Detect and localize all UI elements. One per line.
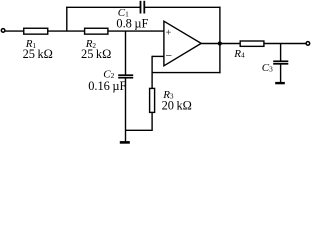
resistor R3 — [150, 88, 155, 112]
op-amp U1 — [164, 21, 201, 66]
output terminal — [306, 42, 310, 46]
ground stub — [125, 130, 127, 141]
ground — [120, 141, 130, 144]
wire C2 to bottom rail — [125, 78, 127, 130]
capacitor C3 — [273, 61, 288, 64]
output node junction dot — [218, 41, 222, 45]
capacitor C2 — [118, 75, 133, 78]
wire C3 branch down — [280, 44, 282, 62]
wire C3 to ground — [280, 64, 282, 82]
wire op-amp output — [201, 43, 240, 45]
ground — [275, 82, 285, 84]
svg-text:25 kΩ: 25 kΩ — [81, 47, 111, 61]
svg-text:20 kΩ: 20 kΩ — [162, 99, 192, 113]
wire output node vertical — [219, 7, 221, 74]
wire top rail right of C1 — [144, 6, 220, 8]
wire R4 to output terminal — [264, 43, 306, 45]
input terminal — [1, 29, 5, 33]
svg-text:0.16 µF: 0.16 µF — [88, 79, 126, 93]
svg-text:C3: C3 — [262, 62, 273, 74]
wire minus input down to R3 — [151, 56, 153, 89]
wire R2 to op-amp + input — [108, 30, 164, 32]
wire top rail left of C1 — [66, 6, 140, 8]
wire minus input — [152, 55, 164, 57]
node A vertical wire to top rail — [66, 7, 68, 32]
svg-text:0.8 µF: 0.8 µF — [116, 16, 148, 30]
minus input marking — [166, 55, 172, 57]
capacitor C1 — [141, 1, 145, 14]
wire C2 branch down from main line — [125, 31, 127, 75]
wire input to R1 — [5, 30, 24, 32]
resistor R4 — [240, 41, 264, 46]
bottom rail wire — [126, 129, 153, 131]
resistor R1 — [24, 28, 48, 34]
feedback wire output to minus input — [152, 72, 220, 74]
wire R1 to R2 — [48, 30, 85, 32]
plus input marking — [166, 30, 171, 35]
resistor R2 — [85, 28, 108, 34]
svg-text:25 kΩ: 25 kΩ — [23, 47, 53, 61]
wire R3 to bottom rail — [151, 112, 153, 131]
svg-text:R4: R4 — [233, 48, 245, 60]
